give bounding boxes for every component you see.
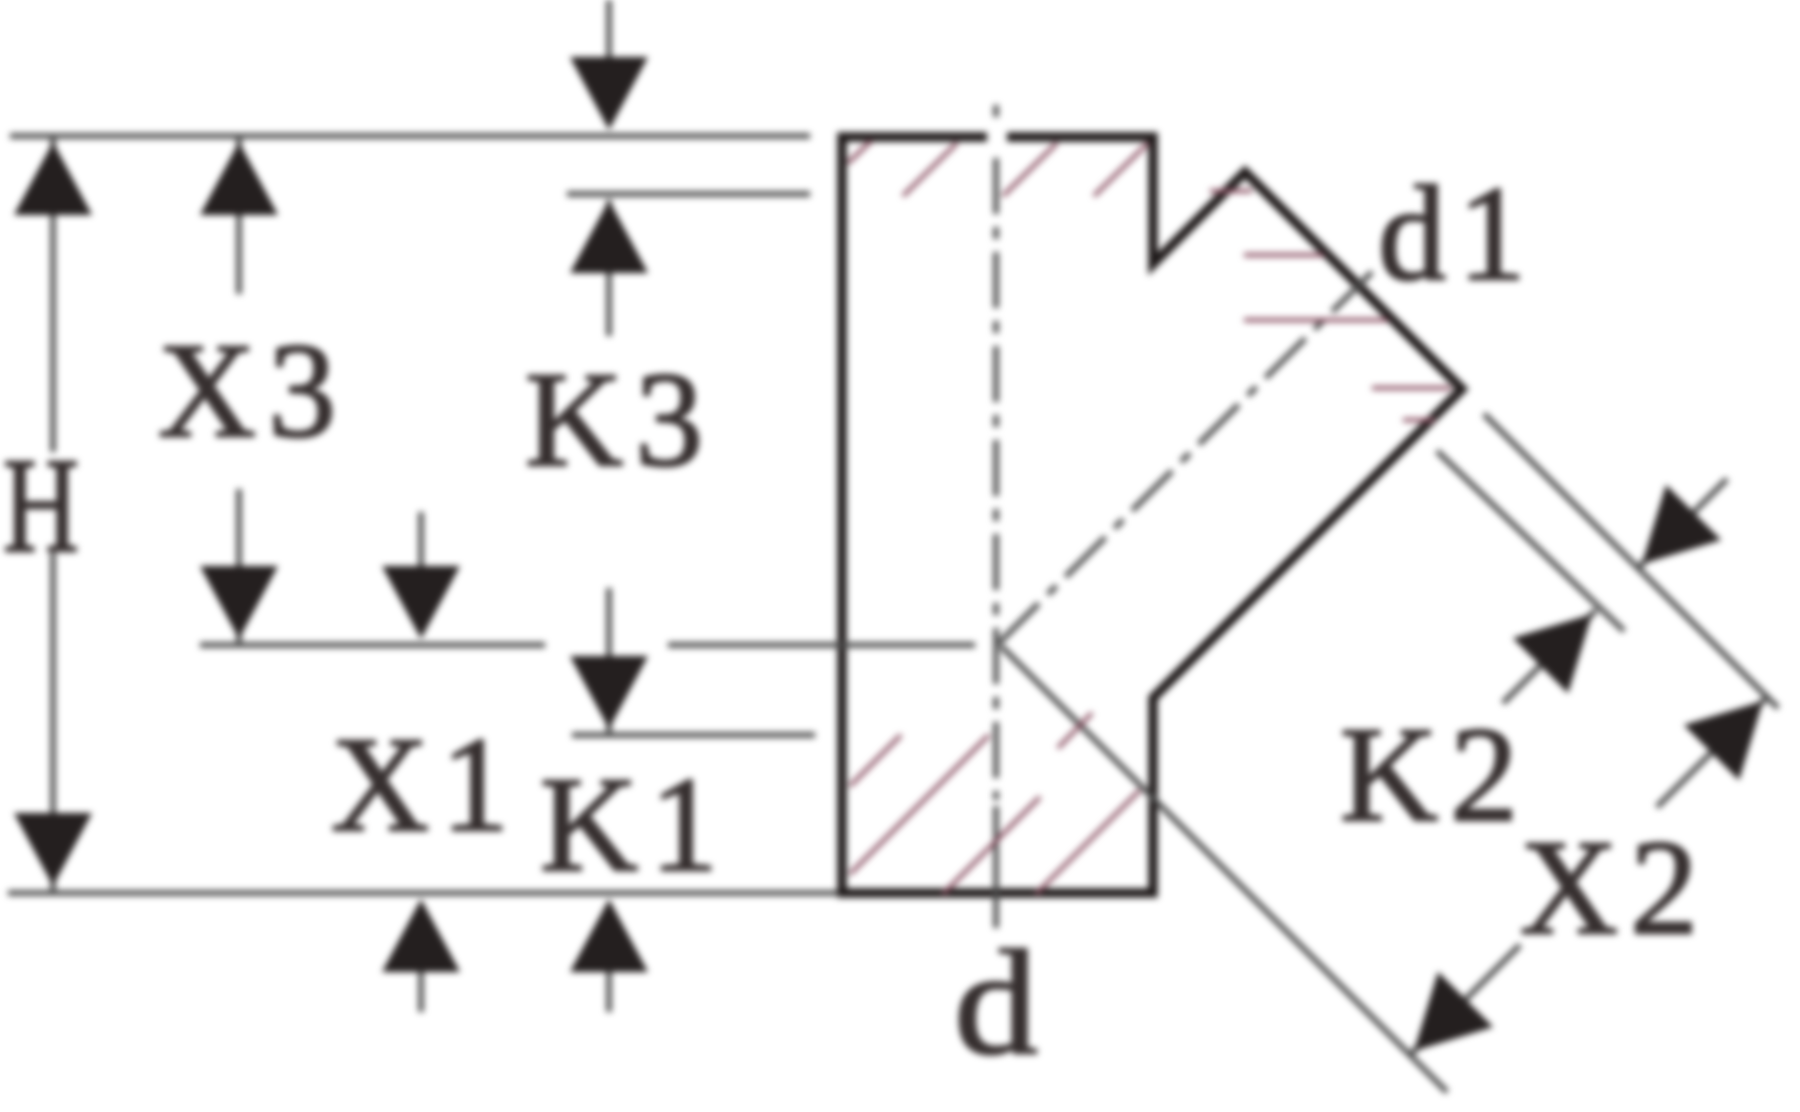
svg-text:X2: X2 (1520, 813, 1710, 963)
svg-text:K3: K3 (525, 345, 715, 495)
branch axis centerline (999, 269, 1375, 643)
K1 reference line (572, 732, 815, 738)
fitting body outline (842, 137, 1462, 893)
centre reference line right part (668, 642, 975, 648)
dimension X3 line (236, 136, 242, 294)
dimension X1 bottom arrow (418, 968, 424, 1012)
hatch bottom wall (850, 713, 1140, 894)
top reference line (10, 133, 810, 139)
dimension H line (50, 136, 56, 452)
hatch top wall (848, 141, 1148, 196)
socket shoulder reference line (567, 191, 810, 197)
hatch branch wall at face (1210, 191, 1451, 420)
dimension X1 top arrow (418, 512, 424, 570)
centre reference line (200, 642, 545, 648)
extension line through crotch centre (1001, 646, 1447, 1092)
cropped dimension line from image top (606, 0, 612, 60)
dimension K1 bottom arrow (606, 968, 612, 1012)
svg-text:K2: K2 (1340, 700, 1530, 850)
cropped dimension arrow (570, 57, 648, 130)
extension line of branch face (1484, 414, 1778, 708)
dimension K2 lower arrow (1503, 610, 1596, 703)
svg-text:X1: X1 (331, 710, 521, 860)
extension line branch inner shoulder (1437, 451, 1624, 631)
main centerline lower solid part (993, 806, 999, 928)
dimension K2 upper arrow (1638, 479, 1727, 568)
dimension X2 lower arrow (1410, 945, 1520, 1055)
dimension X3 top arrow (200, 142, 278, 215)
dimension H top arrow (14, 142, 92, 215)
svg-text:d1: d1 (1378, 159, 1538, 309)
dimension K3 bottom arrow (570, 656, 648, 729)
dimension K3 line (606, 200, 612, 336)
bottom reference line (8, 890, 838, 896)
dimension K3 top arrow (570, 200, 648, 273)
svg-text:d: d (954, 920, 1038, 1086)
svg-text:X3: X3 (158, 316, 348, 466)
dimension X2 upper arrow (1657, 697, 1767, 807)
svg-text:H: H (3, 431, 79, 581)
main vertical centerline (993, 105, 999, 117)
dimension X3 bottom arrow (200, 566, 278, 639)
svg-text:K1: K1 (540, 750, 730, 900)
dimension H bottom arrow (14, 813, 92, 886)
